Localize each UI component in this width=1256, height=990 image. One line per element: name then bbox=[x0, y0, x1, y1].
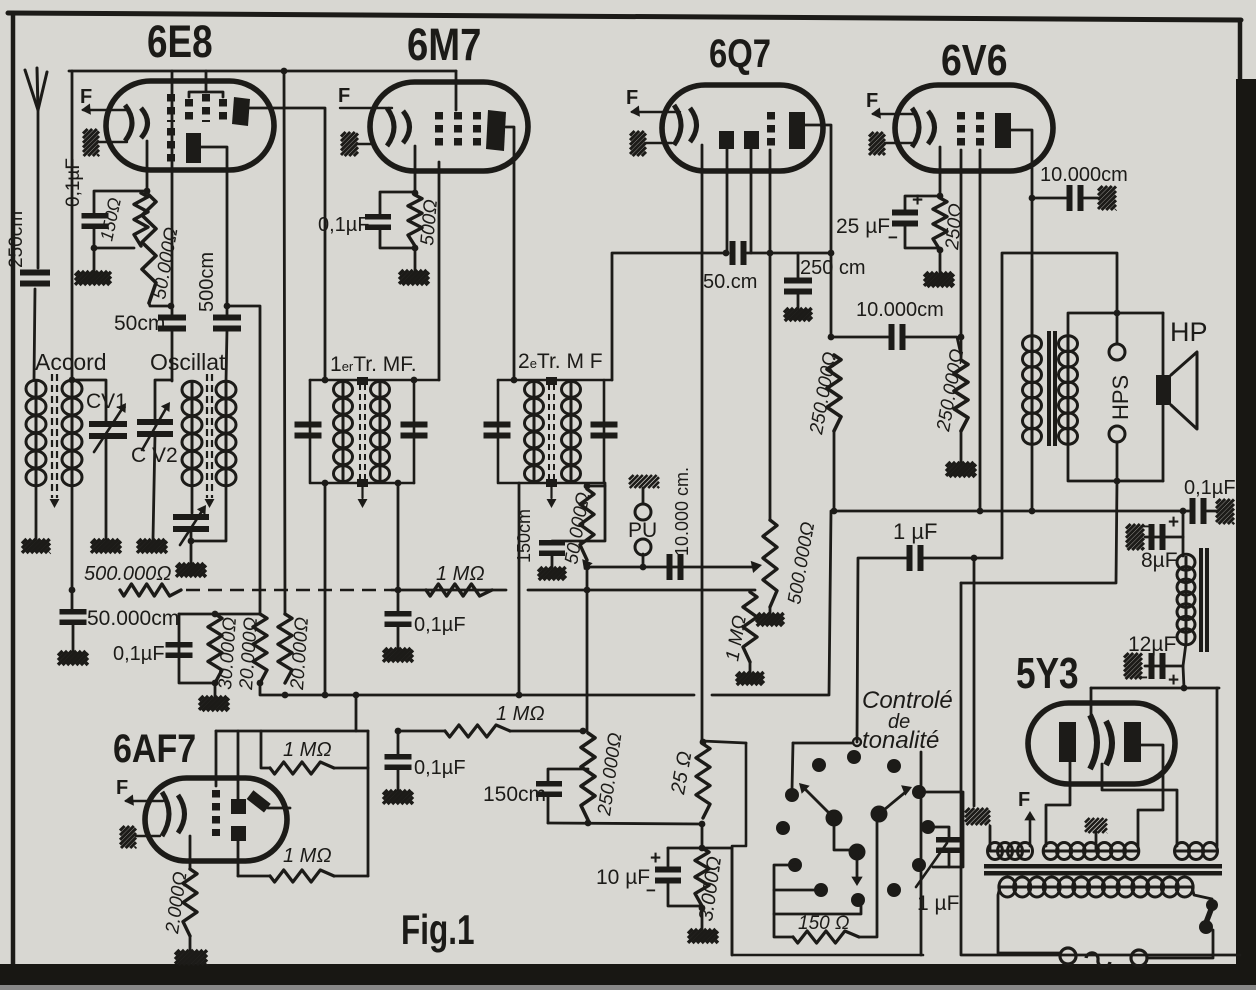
label 8uF bbox=[1141, 549, 1178, 572]
tube 6Q7 anode plate bbox=[789, 112, 805, 149]
switch arrow down bbox=[851, 852, 862, 886]
tube 6M7 envelope bbox=[370, 82, 528, 171]
label 500.000R pot bbox=[784, 520, 819, 606]
tube 6E8 cathode arcs bbox=[125, 105, 148, 141]
wire 1M mid right bbox=[510, 730, 583, 733]
wire 6M7 bypass bottom bbox=[380, 228, 415, 248]
node B+ 1MF bbox=[322, 692, 329, 699]
label 50cm bbox=[114, 312, 165, 335]
ground chassis 10000cm bbox=[1098, 186, 1116, 210]
label 1uF coupling bbox=[893, 519, 937, 544]
svg-text:PU: PU bbox=[628, 519, 657, 542]
tube 6M7 filament line bbox=[340, 107, 392, 109]
svg-text:HP: HP bbox=[1170, 317, 1208, 347]
capacitor padder variable bbox=[173, 505, 209, 545]
label tonalite bbox=[862, 727, 939, 754]
wire 6Q7 cathode long lead bbox=[701, 145, 704, 741]
node B+ 2MF bbox=[516, 692, 523, 699]
svg-text:250Ω: 250Ω bbox=[942, 203, 967, 252]
wire 1M mid left bbox=[398, 730, 445, 733]
node 1uF right bbox=[971, 555, 978, 562]
svg-text:1 µF: 1 µF bbox=[917, 892, 959, 915]
coil 1MF secondary bbox=[371, 381, 390, 482]
transformer HPS core bbox=[1047, 331, 1057, 446]
switch contact dot D bbox=[785, 788, 799, 802]
svg-text:−: − bbox=[646, 881, 656, 900]
svg-text:0,1µF: 0,1µF bbox=[113, 643, 165, 665]
label 10.000cm PU bbox=[672, 467, 692, 556]
node AVC 0,1uF junction bbox=[395, 587, 402, 594]
node AVC left bbox=[69, 587, 76, 594]
arrow pot wiper bbox=[751, 561, 762, 573]
tube 6Q7 diode plate 1 bbox=[719, 131, 734, 149]
wire x587 down to 1M node bbox=[586, 590, 589, 731]
ground chassis 6AF7 bbox=[120, 826, 160, 848]
node 6V6 cathode bbox=[937, 193, 944, 200]
node diode line pot bbox=[767, 250, 774, 257]
switch contact dot H bbox=[849, 844, 866, 861]
border frame top line bbox=[8, 13, 1241, 20]
tube 6AF7 filament arrow bbox=[124, 795, 163, 806]
wire 25uF top bbox=[905, 196, 940, 210]
tube 6V6 anode plate bbox=[995, 113, 1011, 148]
node 6M7 cath bottom bbox=[412, 245, 419, 252]
svg-text:+: + bbox=[912, 190, 923, 211]
speaker HP bbox=[1156, 352, 1197, 429]
node 150R bottom bbox=[91, 245, 98, 252]
wire 1uF left bbox=[857, 558, 907, 742]
terminal PU upper circle bbox=[635, 504, 651, 520]
wire B+ to 6AF7 bus bbox=[355, 695, 358, 731]
svg-text:Fig.1: Fig.1 bbox=[401, 906, 474, 954]
node bank 20ka bottom bbox=[257, 680, 264, 687]
wire 2000R ground stub bbox=[189, 936, 192, 950]
wire 6V6 cathode lead bbox=[939, 147, 942, 196]
wire tone feed from cathode bias bbox=[702, 741, 746, 743]
label plus 8uF bbox=[1168, 512, 1179, 533]
svg-text:6AF7: 6AF7 bbox=[113, 725, 196, 770]
svg-text:500cm: 500cm bbox=[196, 252, 218, 312]
wire diode line to anode line bbox=[747, 252, 831, 255]
wire 1M b right bbox=[334, 875, 368, 878]
wire 150cm af box bbox=[548, 769, 588, 782]
tube 6E8 envelope bbox=[106, 81, 274, 170]
resistor 30.000R bank bbox=[208, 614, 222, 683]
node 3000R top bbox=[699, 845, 706, 852]
wire HPS terminal top stub bbox=[1116, 313, 1119, 344]
svg-text:1 MΩ: 1 MΩ bbox=[436, 563, 485, 585]
coil Accord primary bbox=[26, 380, 46, 486]
wire 6M7 grid drop from bus bbox=[455, 71, 458, 110]
label 250.000R a bbox=[806, 350, 841, 437]
wire 1M a right bbox=[334, 767, 368, 770]
resistor 250R 6V6 bbox=[933, 198, 947, 250]
wire 150cm af box bottom bbox=[547, 796, 550, 823]
svg-text:6V6: 6V6 bbox=[941, 35, 1008, 85]
transformer winding HV bbox=[1043, 843, 1139, 860]
ground chassis pot bbox=[756, 613, 784, 626]
wire 0,1uF af ground stub bbox=[397, 769, 400, 790]
capacitor 0,1uF 6E8 cathode bbox=[82, 216, 109, 227]
wire 1M b left bbox=[238, 875, 270, 878]
label 12uF bbox=[1128, 633, 1176, 656]
wire 0,1uF ground stub bbox=[397, 626, 400, 648]
wire 6AF7 anode2 down bbox=[237, 841, 240, 876]
capacitor 0,1uF AVC bbox=[385, 614, 412, 625]
node 500cm junction bbox=[224, 303, 231, 310]
svg-text:F: F bbox=[1018, 789, 1030, 811]
wire power box frame bbox=[961, 583, 1240, 955]
core Accord bbox=[50, 374, 60, 508]
resistor 150R 6E8 bbox=[134, 193, 148, 246]
node grid line 50cm bbox=[168, 303, 175, 310]
wire tone E low bbox=[774, 903, 861, 914]
wire tone E mid bbox=[774, 889, 814, 892]
capacitor 2MF left bbox=[484, 425, 511, 436]
svg-text:1 MΩ: 1 MΩ bbox=[283, 845, 332, 867]
label 250 cm bbox=[800, 257, 866, 279]
wire tone box right bbox=[920, 752, 923, 955]
node B+ 250k bbox=[831, 508, 838, 515]
wire 1MF sec top to 6M7 grid bbox=[438, 162, 441, 380]
node 3000R bottom bbox=[699, 905, 706, 912]
svg-text:0,1µF: 0,1µF bbox=[318, 214, 370, 236]
label minus 12uF bbox=[1138, 668, 1148, 687]
switch contact dot L bbox=[887, 883, 901, 897]
wire B+ line y511 bbox=[834, 510, 1189, 513]
wire CV1 ground stub bbox=[105, 437, 108, 539]
wire 0,1uF stub bbox=[397, 590, 400, 612]
wire power box top bbox=[961, 481, 1117, 583]
wire 150cm det top bbox=[552, 486, 605, 541]
wire CV2 top bbox=[155, 380, 172, 424]
wire 50.000cm ground stub bbox=[72, 624, 75, 651]
tube 6M7 grid2 column bbox=[454, 112, 462, 146]
core Oscillat bbox=[205, 374, 215, 508]
svg-text:10.000 cm.: 10.000 cm. bbox=[672, 467, 692, 556]
label F transformer bbox=[1018, 789, 1030, 811]
wire bank left branch bbox=[179, 614, 215, 683]
capacitor 0,1uF af bbox=[385, 757, 412, 768]
switch mains bbox=[1199, 899, 1218, 934]
wire 3000R ground stub bbox=[701, 908, 704, 929]
ground chassis 0,1uF out bbox=[1216, 499, 1234, 524]
ground chassis 1MR vert bbox=[736, 672, 764, 685]
ground chassis 250k b bbox=[946, 462, 976, 477]
wire bank top bbox=[179, 613, 260, 616]
wire triode anode 500cm line bbox=[226, 306, 229, 316]
wire 150R to rotor bbox=[859, 814, 877, 937]
svg-text:150 Ω: 150 Ω bbox=[798, 913, 849, 934]
resistor 1MR grid b bbox=[270, 870, 334, 882]
wire det to pot wiper bbox=[587, 566, 752, 569]
label 250cm antenna bbox=[6, 211, 27, 268]
label 150cm det bbox=[514, 509, 534, 563]
wire rotor stub bbox=[834, 818, 855, 850]
label 10.000cm screen bbox=[856, 299, 944, 321]
wire bank ground stub bbox=[214, 683, 217, 696]
ground chassis accord primary bbox=[22, 539, 50, 553]
node 1MF sec top bbox=[411, 377, 418, 384]
core 2MF bbox=[546, 377, 557, 508]
wire 5V right to B+ bbox=[1216, 688, 1219, 846]
node B+ 6AF7 bbox=[353, 692, 360, 699]
capacitor 1uF tone bbox=[936, 840, 962, 851]
capacitor CV2 variable bbox=[137, 402, 173, 450]
coil 2MF primary bbox=[525, 381, 544, 482]
ground chassis 12uF bbox=[1124, 653, 1142, 679]
switch contact dot K bbox=[814, 883, 828, 897]
tube 5Y3 envelope bbox=[1028, 703, 1175, 784]
node anode-diode junction bbox=[828, 250, 835, 257]
capacitor 250cm diode bbox=[784, 281, 812, 292]
node 2MF top feed bbox=[511, 377, 518, 384]
wire primary right bbox=[1192, 887, 1212, 899]
wire HPS sec bottom bbox=[1068, 444, 1163, 481]
wire 500cm to oscill coil bbox=[226, 330, 227, 381]
wire 6V6 grid lead bbox=[979, 150, 982, 511]
wire HV center tap bbox=[1095, 832, 1098, 851]
wire 250cm ground stub bbox=[797, 293, 800, 308]
node 1MF bottom feed bbox=[322, 480, 329, 487]
border frame right thin line bbox=[1238, 20, 1243, 82]
terminal mains circle 1 bbox=[1060, 948, 1076, 964]
label 500.000R AVC bbox=[84, 563, 172, 585]
capacitor 10.000cm screen bbox=[892, 324, 903, 350]
node diode1 bbox=[723, 250, 730, 257]
tube 6V6 grid1 column bbox=[976, 112, 984, 146]
wire 1uF right bbox=[923, 557, 1002, 560]
resistor 50.000R det bbox=[580, 489, 594, 570]
wire choke bbox=[1182, 511, 1185, 556]
tube label 6V6 bbox=[941, 35, 1008, 85]
label 0,1uF 6M7 bbox=[318, 214, 370, 236]
svg-text:50.000cm: 50.000cm bbox=[87, 607, 179, 630]
resistor 250.000R a bbox=[827, 355, 841, 431]
terminal tone feed circle bbox=[853, 738, 861, 746]
transformer HPS secondary coil bbox=[1059, 336, 1078, 445]
wire tone left contact drop bbox=[792, 743, 793, 790]
tube 6Q7 envelope bbox=[662, 85, 823, 171]
svg-text:−: − bbox=[888, 228, 898, 247]
wire 6E8 cathode lead bbox=[146, 141, 149, 191]
tube 6AF7 target plate bbox=[247, 790, 271, 812]
wire mains right bbox=[1147, 930, 1213, 958]
wire bus drop to 6E8 grid cap bbox=[189, 71, 206, 97]
tube 5Y3 anode 1 bbox=[1059, 722, 1076, 762]
wire rectifier output row bbox=[1091, 687, 1219, 690]
terminal PU lower circle bbox=[635, 539, 651, 555]
node anode 10000cm bbox=[1029, 195, 1036, 202]
transformer primary winding bbox=[999, 877, 1193, 897]
label 20.000R a bbox=[236, 616, 262, 691]
node screen feed bbox=[828, 334, 835, 341]
wire tone box left bbox=[732, 743, 923, 955]
wire padder ground stub bbox=[190, 541, 193, 563]
wire 12uF row bbox=[1145, 665, 1183, 668]
ground chassis 6E8 cathode bbox=[75, 271, 111, 285]
ground chassis bank bbox=[199, 696, 229, 711]
wire AVC to 50.000cm bbox=[71, 590, 74, 610]
border frame right black band bbox=[1236, 79, 1256, 985]
ground chassis 6Q7 bbox=[630, 131, 672, 156]
tube 6V6 filament arrow bbox=[871, 108, 916, 119]
svg-text:250cm: 250cm bbox=[6, 211, 27, 268]
capacitor 10uF electrolytic bbox=[655, 870, 681, 881]
wire 1MR vert ground stub bbox=[749, 662, 752, 672]
label CV1 bbox=[86, 390, 127, 413]
svg-text:F: F bbox=[116, 777, 128, 799]
wire PU ground stub bbox=[642, 488, 645, 504]
terminal HPS top circle bbox=[1109, 344, 1125, 360]
resistor 20.000R b bank bbox=[278, 614, 292, 683]
wire primary left bbox=[998, 887, 1060, 953]
tube 6AF7 grid column bbox=[212, 790, 220, 836]
tube 6Q7 filament arrow bbox=[630, 106, 680, 117]
label HP bbox=[1170, 317, 1208, 347]
label 500R 6M7 bbox=[417, 199, 442, 247]
wire PU stub bbox=[642, 554, 645, 567]
wire 6V6 screen lead bbox=[960, 150, 963, 360]
tube 6E8 heater F label bbox=[80, 86, 92, 108]
node padder bottom bbox=[188, 538, 195, 545]
capacitor 500cm bbox=[213, 318, 241, 329]
tube 6AF7 F label bbox=[116, 777, 128, 799]
antenna bbox=[25, 68, 47, 110]
wire 1M a left bbox=[261, 731, 270, 768]
wire pot ground stub bbox=[769, 607, 772, 613]
ground chassis 8uF bbox=[1126, 524, 1144, 550]
tube 6V6 F label bbox=[866, 90, 878, 112]
node bank 30k top bbox=[212, 611, 219, 618]
resistor 500R 6M7 bbox=[408, 195, 422, 246]
label plus 10uF bbox=[650, 848, 661, 869]
resistor 1MR bottom mid bbox=[445, 725, 510, 737]
ground chassis 1uF drop bbox=[965, 808, 990, 825]
svg-text:6Q7: 6Q7 bbox=[709, 31, 771, 76]
resistor 20.000R a bank bbox=[253, 614, 267, 683]
tube label 6M7 bbox=[407, 19, 481, 70]
wire 10uF bottom bbox=[668, 882, 702, 906]
wire 10uF node down box bbox=[731, 848, 734, 955]
capacitor 150cm det bbox=[539, 543, 565, 554]
coil Accord secondary bbox=[62, 380, 82, 486]
coil 1MF primary bbox=[334, 381, 353, 482]
choke field coil bbox=[1177, 554, 1195, 645]
label 150R tone bbox=[798, 913, 849, 934]
node 6M7 cathode bbox=[412, 190, 419, 197]
tube 6E8 grid1 column bbox=[167, 94, 175, 122]
capacitor 10.000cm anode bbox=[1070, 185, 1081, 211]
tube 6Q7 cathode arcs bbox=[674, 105, 697, 145]
node HPS prim B+ bbox=[1029, 508, 1036, 515]
svg-text:F: F bbox=[866, 90, 878, 112]
switch contact dot A bbox=[847, 750, 861, 764]
svg-text:500Ω: 500Ω bbox=[417, 199, 442, 247]
wire anode line to screen node bbox=[830, 253, 833, 337]
svg-text:Controlé: Controlé bbox=[862, 687, 953, 714]
wire 50.000 det down bbox=[586, 567, 589, 589]
switch contact dot J bbox=[912, 858, 926, 872]
border frame bottom black band bbox=[0, 964, 1256, 985]
resistor 1MR vert bbox=[743, 592, 757, 662]
wire 50.000R to grid line bbox=[149, 303, 171, 306]
wire screen cap right bbox=[906, 337, 961, 355]
ground chassis 6M7 cathode bbox=[399, 270, 429, 285]
wire tone 1uF bottom stub bbox=[948, 851, 951, 867]
wire cathode ground stub bbox=[93, 248, 96, 271]
label 50.000R 6E8 bbox=[149, 226, 182, 301]
transformer 1MF frame bbox=[310, 380, 439, 483]
label 20.000R b bbox=[287, 616, 313, 691]
wire 5Y3 anode1 lead bbox=[1046, 762, 1070, 846]
label 50.000cm bbox=[87, 607, 179, 630]
capacitor 12uF electrolytic bbox=[1152, 653, 1163, 679]
wire cap to 150R bottom bbox=[94, 228, 134, 248]
label minus 8uF bbox=[1140, 517, 1150, 536]
border frame left line bbox=[11, 13, 16, 965]
switch rotor left bbox=[799, 783, 843, 827]
tube label 5Y3 bbox=[1016, 649, 1079, 698]
label 1er Tr.MF. bbox=[330, 353, 417, 376]
terminal HPS bottom circle bbox=[1109, 426, 1125, 442]
tube 6E8 grid4 column bbox=[219, 99, 227, 120]
wire accord secondary grid line bbox=[71, 71, 74, 590]
ground chassis 6V6 bbox=[869, 132, 912, 155]
node screen junction bbox=[958, 334, 965, 341]
node PU stub bbox=[640, 564, 647, 571]
resistor 1MR AVC bbox=[426, 584, 492, 596]
wire 6AF7 bus bbox=[216, 730, 368, 733]
tube 6V6 envelope bbox=[895, 85, 1053, 171]
svg-text:F: F bbox=[626, 87, 638, 109]
node HPS top bbox=[1114, 310, 1121, 317]
label 1MR vert bbox=[722, 614, 751, 663]
tube 6E8 grid3 column bbox=[202, 94, 210, 122]
tube 6M7 grid3 column bbox=[473, 112, 481, 146]
node 6V6 cath bottom bbox=[937, 247, 944, 254]
wire 10000cm cap wire bbox=[1032, 197, 1066, 200]
wire 2MF sec top to diode bbox=[612, 253, 725, 380]
wire HPS sec top bbox=[1068, 313, 1163, 336]
svg-text:1 MΩ: 1 MΩ bbox=[283, 739, 332, 761]
wire HP speaker drop bbox=[1162, 313, 1165, 481]
wire 25R to 3000R bbox=[701, 824, 704, 848]
ground chassis 6M7 bbox=[341, 132, 373, 156]
label 0,1uF af bbox=[414, 757, 466, 779]
switch contact dot C bbox=[887, 759, 901, 773]
tube 6AF7 anode plate 1 bbox=[231, 799, 246, 814]
wire 5Y3 filament bottom lead bbox=[1102, 764, 1177, 846]
wire 1MF secondary to AVC bbox=[397, 483, 400, 590]
wire AVC solid mid bbox=[392, 589, 506, 592]
wire oscill prim bottom to padder bbox=[191, 486, 194, 513]
resistor 150R tone bbox=[793, 931, 859, 943]
wire 10000cm cap to ground bbox=[1084, 197, 1098, 200]
label 1MR bottom mid bbox=[496, 703, 545, 725]
wire 250cm stub bbox=[797, 253, 800, 279]
wire 6Q7 diode2 lead bbox=[750, 149, 753, 253]
svg-text:+: + bbox=[650, 848, 661, 869]
node choke top bbox=[1180, 508, 1187, 515]
wire grid line to 50cm cap bbox=[171, 306, 174, 316]
svg-text:6M7: 6M7 bbox=[407, 19, 481, 70]
capacitor 8uF electrolytic bbox=[1152, 524, 1163, 550]
svg-text:10.000cm: 10.000cm bbox=[1040, 164, 1128, 186]
wire tone top bbox=[793, 742, 853, 745]
choke core bbox=[1199, 548, 1209, 652]
node 2MF sec bottom bbox=[584, 483, 591, 490]
